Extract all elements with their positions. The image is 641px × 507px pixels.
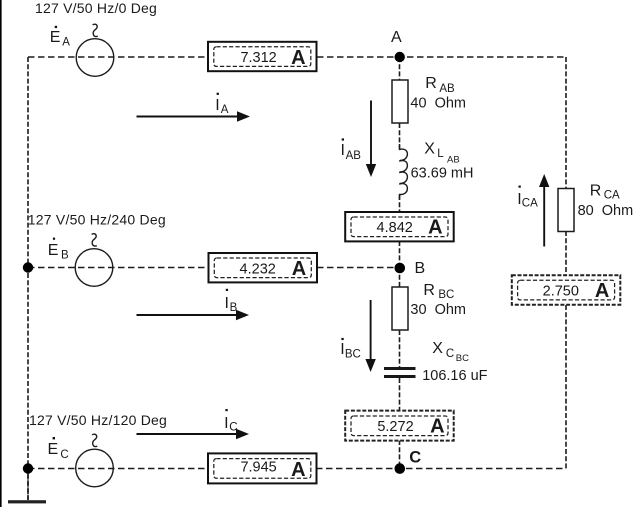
svg-text:BC: BC xyxy=(345,349,361,361)
svg-text:BC: BC xyxy=(438,289,454,301)
wire: inductor to ammeter IAB xyxy=(399,195,401,212)
svg-text:4.842: 4.842 xyxy=(377,220,413,236)
capacitor XCBC xyxy=(384,367,416,378)
svg-text:A: A xyxy=(595,280,609,302)
svg-text:R: R xyxy=(423,282,435,299)
wire: left vertical bus xyxy=(27,57,29,500)
node C xyxy=(395,463,406,474)
svg-text:127 V/50 Hz/240 Deg: 127 V/50 Hz/240 Deg xyxy=(28,211,166,227)
source E_C xyxy=(48,434,114,487)
ammeter branch BC 5.272 xyxy=(345,411,454,441)
svg-text:R: R xyxy=(425,75,437,92)
wire: right vertical branch upper xyxy=(565,57,567,189)
current arrow iC xyxy=(137,409,250,439)
svg-text:C: C xyxy=(409,448,421,466)
svg-text:I: I xyxy=(341,142,345,159)
svg-text:I: I xyxy=(224,415,228,432)
svg-text:E: E xyxy=(48,242,59,259)
ground xyxy=(8,473,46,503)
svg-text:AB: AB xyxy=(447,154,460,165)
node A xyxy=(395,52,405,62)
current arrow iAB xyxy=(341,101,377,178)
wire: ammeter IBC to node C xyxy=(399,440,401,469)
wire: phase A horizontal right segment to right branch corner xyxy=(317,56,566,58)
inductor XLAB xyxy=(400,144,408,200)
svg-text:A: A xyxy=(391,29,402,46)
wire: phase C horizontal right segment to right branch corner xyxy=(316,468,566,470)
svg-text:7.945: 7.945 xyxy=(240,460,276,476)
svg-text:CA: CA xyxy=(604,189,620,201)
svg-text:AB: AB xyxy=(346,150,362,162)
wire: phase B horizontal left segment xyxy=(28,267,209,269)
current arrow iBC xyxy=(340,300,376,372)
svg-text:106.16 uF: 106.16 uF xyxy=(422,368,487,384)
svg-text:B: B xyxy=(415,260,426,277)
resistor RAB xyxy=(392,80,408,123)
svg-text:40 Ohm: 40 Ohm xyxy=(410,95,466,111)
svg-text:A: A xyxy=(292,258,306,280)
svg-text:R: R xyxy=(590,183,602,200)
svg-text:L: L xyxy=(437,148,444,160)
ammeter phase A 7.312 xyxy=(208,42,317,71)
wire: ammeter IAB to node B xyxy=(399,241,401,268)
canvas left border xyxy=(0,0,2,507)
current arrow iCA xyxy=(517,174,549,247)
label RAB xyxy=(425,75,455,95)
wire: node B to RBC xyxy=(399,268,401,288)
wire: phase C horizontal left segment xyxy=(28,468,208,470)
svg-text:63.69 mH: 63.69 mH xyxy=(411,166,474,182)
svg-text:A: A xyxy=(62,37,70,49)
label XCBC xyxy=(432,340,469,364)
resistor RBC xyxy=(392,287,408,330)
wire: capacitor to ammeter IBC xyxy=(399,378,401,411)
wire: RAB to inductor xyxy=(399,123,401,149)
wire: phase A horizontal left segment xyxy=(28,56,208,58)
node B xyxy=(395,263,406,274)
label XLAB xyxy=(424,140,459,165)
junction left bus phase B xyxy=(23,262,33,272)
wire: right vertical between RCA and ammeter xyxy=(565,231,567,275)
svg-text:B: B xyxy=(61,250,69,262)
wire: node A to RAB xyxy=(399,57,401,80)
current arrow iA xyxy=(137,93,251,122)
source E_A xyxy=(50,24,114,76)
svg-text:C: C xyxy=(229,422,237,434)
svg-text:E: E xyxy=(48,441,59,458)
svg-text:AB: AB xyxy=(439,83,455,95)
svg-text:BC: BC xyxy=(456,353,469,364)
svg-text:C: C xyxy=(446,348,454,360)
svg-text:127 V/50 Hz/0 Deg: 127 V/50 Hz/0 Deg xyxy=(35,0,157,16)
wire: RBC to capacitor xyxy=(399,330,401,367)
ammeter phase C 7.945 xyxy=(208,453,317,483)
source E_B xyxy=(48,234,113,287)
svg-text:X: X xyxy=(432,340,443,357)
svg-text:5.272: 5.272 xyxy=(377,419,413,435)
svg-text:127 V/50 Hz/120 Deg: 127 V/50 Hz/120 Deg xyxy=(29,412,167,428)
svg-text:CA: CA xyxy=(522,197,538,209)
ammeter phase B 4.232 xyxy=(209,253,318,282)
svg-text:I: I xyxy=(225,295,229,312)
wire: phase B horizontal right segment to node B xyxy=(317,267,400,269)
svg-text:2.750: 2.750 xyxy=(543,283,579,299)
svg-text:X: X xyxy=(424,140,435,157)
svg-text:A: A xyxy=(430,416,444,438)
svg-text:C: C xyxy=(60,449,68,461)
svg-text:B: B xyxy=(230,302,238,314)
svg-text:4.232: 4.232 xyxy=(240,261,276,277)
svg-text:7.312: 7.312 xyxy=(240,50,276,66)
label RBC xyxy=(423,282,454,301)
svg-text:30 Ohm: 30 Ohm xyxy=(410,302,466,318)
label RCA xyxy=(590,183,620,202)
ammeter branch CA 2.750 xyxy=(512,275,621,304)
svg-text:E: E xyxy=(50,29,61,46)
junction left bus phase C xyxy=(23,463,33,473)
current arrow iB xyxy=(137,289,250,320)
svg-text:A: A xyxy=(221,104,229,116)
svg-text:A: A xyxy=(428,217,442,239)
svg-text:80 Ohm: 80 Ohm xyxy=(578,203,634,219)
svg-text:A: A xyxy=(291,459,305,481)
ammeter branch AB 4.842 xyxy=(345,212,454,241)
resistor RCA xyxy=(558,189,574,232)
svg-text:I: I xyxy=(215,97,219,114)
wire: right vertical lower xyxy=(565,305,567,469)
svg-text:A: A xyxy=(291,47,305,69)
